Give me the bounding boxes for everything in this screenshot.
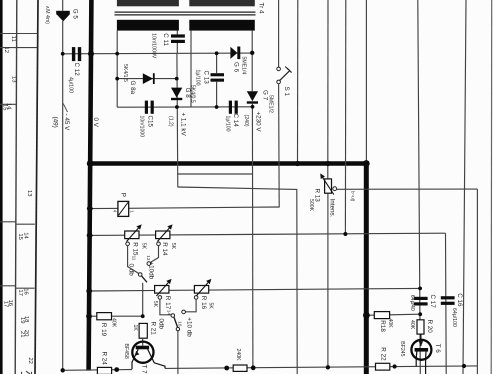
node R24 right [114,367,119,372]
svg-text:22: 22 [27,357,33,364]
svg-text:1μ/100: 1μ/100 [225,116,231,132]
wire 11 (left strip) [0,33,38,35]
T7 emitter arrow [135,351,140,356]
wire R24 (y=370) [63,369,132,372]
svg-text:240K: 240K [235,349,241,362]
corner line down x=477.5 [476,189,478,374]
cable line B [35,0,38,374]
wire 14/15 (left strip) [0,103,17,105]
svg-text:C 13: C 13 [202,71,209,85]
switch lever (0db selected) [141,276,147,283]
node C13 top [215,51,219,55]
svg-text:C 17: C 17 [429,295,436,309]
svg-text:17: 17 [2,301,8,308]
thick bus wire (right vertical) [364,161,369,374]
pot R16 body [194,286,208,294]
node +1.1kV [175,105,179,109]
relay P wire [90,207,280,209]
node +230V [251,105,255,109]
node x464 bottom [462,364,466,368]
lever common wire down to R19 node [142,283,144,316]
wire rail to x=420 [90,288,420,291]
resistor R21 [139,323,147,338]
cable line A [15,0,17,374]
svg-text:T 6: T 6 [434,344,441,353]
pot R13 body [325,179,332,193]
svg-text:R18: R18 [379,320,386,332]
node G6/winding [250,51,254,55]
svg-text:Intens.: Intens. [329,199,336,218]
wire y=107 [117,106,252,108]
svg-text:R 16: R 16 [200,296,207,310]
svg-text:15: 15 [17,233,23,240]
svg-text:0 V: 0 V [92,118,99,128]
svg-text:16: 16 [177,321,182,327]
transformer bottom winding right [189,20,255,31]
pot R17 arrow [156,283,168,297]
wire 16/17 jog [0,285,15,287]
node R23 right [251,365,256,370]
0V thick rail (left) [89,0,92,371]
R13 wiper terminal [333,187,337,191]
pot R14 arrow [157,228,169,242]
capacitor C14 [229,101,238,114]
svg-text:5K4/0,5: 5K4/0,5 [189,85,195,103]
transformer top winding right [189,0,255,6]
bottom edge stubs wire 22 [21,372,23,374]
wire R18 (y=315.3) [366,314,420,315]
switch contact 13 [147,262,151,266]
svg-text:R 21: R 21 [150,322,157,336]
pot R17 body [155,286,169,294]
node bus x297 [295,161,300,166]
svg-text:R 15: R 15 [132,242,139,256]
svg-text:R 22: R 22 [380,347,387,361]
long vertical line x=297.5 (upper) [297,0,299,164]
R13 lower line [327,193,329,367]
S1 line lower [278,84,281,208]
node rail/P [87,206,93,212]
svg-text:R 20: R 20 [426,320,433,334]
svg-text:R 24: R 24 [100,352,107,366]
svg-text:17: 17 [17,289,23,296]
svg-text:5K4/1,5: 5K4/1,5 [122,64,128,82]
lever pivot contact [176,327,179,330]
T6 gate lead [420,334,422,346]
node x345 wire235 [343,232,347,236]
svg-text:64μ/100: 64μ/100 [451,308,457,327]
R17 wiper contact [158,296,162,300]
pot R15 arrow [127,228,139,242]
svg-text:R 14: R 14 [161,242,168,256]
svg-text:b~ug̃: b~ug̃ [350,191,355,202]
node rail R18 [363,312,370,319]
capacitor C12 [72,47,81,61]
G7 bottom stub / +230V line down [251,104,254,369]
svg-text:0 db: 0 db [128,264,135,277]
resistor R18 [374,312,389,319]
transistor T7 [132,342,153,363]
T7 collector [148,349,165,368]
svg-text:G 6: G 6 [233,62,240,73]
corner line down x=445.5 [445,233,448,374]
resistor R23 [233,365,247,371]
svg-text:C 11: C 11 [162,33,169,46]
wire R19 (y=316) [90,315,143,317]
svg-text:5K: 5K [152,301,158,308]
svg-text:T 7: T 7 [141,365,148,374]
diode G6 [230,47,240,60]
svg-text:P: P [120,193,127,197]
vertical line x=366.4 upper thin [365,0,367,162]
S1 lever [280,71,290,81]
R16 wiper wire down [186,299,197,312]
switch contact 11 [138,273,142,277]
svg-text:1μ/100: 1μ/100 [195,70,201,86]
svg-text:12: 12 [3,47,9,54]
+1.1kV vertical x=177 [176,53,179,187]
diode G8a [143,73,155,84]
svg-text:19: 19 [19,317,25,324]
svg-text:14: 14 [167,310,172,316]
svg-text:BF245: BF245 [399,341,405,356]
svg-text:10n/1000V: 10n/1000V [151,33,157,59]
node x327 bottom [326,365,330,369]
svg-text:G 7: G 7 [262,90,269,101]
svg-text:Tr 4: Tr 4 [258,3,265,14]
lever common wire down [177,331,179,374]
T7 base bar [136,346,149,350]
wire 12 (left strip) [0,47,37,49]
transformer core lines [115,11,256,13]
S1 contacts [277,67,281,71]
svg-text:5ME1/4: 5ME1/4 [241,57,247,75]
svg-text:0db: 0db [158,319,165,330]
diode G8 [171,88,182,101]
S1 line upper [278,0,280,67]
R14 wiper contact [157,242,161,246]
C11 bottom stub [176,43,178,53]
svg-text:BF458: BF458 [123,344,129,359]
node bus x327 [325,161,330,166]
switch lever 2 [174,317,178,328]
svg-text:- 45 V: - 45 V [63,114,70,132]
wire A (bus branch, turns down at x=297) [178,187,297,374]
svg-text:(1,2): (1,2) [168,116,174,127]
node rail/R17 [86,288,92,294]
capacitor C13 [211,73,225,82]
node x420 wire289 [418,287,422,291]
diode G5 [56,11,70,22]
node rail/bus [87,160,94,167]
node rail/R19 [86,313,92,319]
svg-text:C 12: C 12 [73,63,80,77]
R14 wiper wire down [150,246,158,263]
transformer top winding left [117,0,179,6]
wire rail to C16 corner [90,233,446,235]
T7 emitter [132,349,138,369]
svg-text:C 14: C 14 [232,114,239,128]
right edge line [490,0,493,374]
pot R15 body [125,231,139,239]
pot R16 arrow [196,283,208,297]
node x117 G8a [115,77,119,81]
svg-text:1K: 1K [132,325,138,332]
switch contact 16 [182,310,186,314]
svg-text:1: 1 [129,210,134,213]
pot R14 body [156,231,170,239]
wire 14/15 jog lower [0,221,16,223]
svg-text:4: 4 [113,210,118,213]
node rail/top wire [88,51,94,57]
G8a branch vertical x=117 [117,78,176,80]
resistor R20 [417,320,424,334]
svg-text:64μ/40: 64μ/40 [409,295,415,311]
svg-text:13: 13 [146,255,151,261]
relay P box [118,201,129,216]
svg-text:+10db: +10db [147,262,154,280]
wire G5 top stub [62,0,64,11]
svg-text:C15: C15 [146,116,153,128]
long vertical line x=464.5 [463,0,466,374]
node G8a/G8 [175,77,179,81]
diode G7 [247,91,258,104]
R17 wiper wire down [160,299,171,315]
resistor R22 [376,363,390,370]
svg-text:5K: 5K [207,303,213,310]
node R22 right [393,364,397,368]
R13 wiper wire to right [337,188,478,190]
node -45V bottom [61,368,65,372]
svg-text:40K: 40K [409,320,415,330]
svg-text:+230 V: +230 V [255,112,262,133]
svg-text:5ME1/2: 5ME1/2 [268,95,274,113]
R21 base wire [142,338,144,346]
capacitor C16 [441,296,455,305]
node x420 R18 [418,312,422,316]
svg-text:(49): (49) [52,117,59,128]
T6 drain lead [425,352,427,374]
svg-text:R 19: R 19 [100,323,107,337]
node bus corner [363,160,370,167]
svg-text:11: 11 [10,36,16,42]
capacitor C17 [414,297,428,306]
node R19/R21 [141,314,145,318]
svg-text:S 1: S 1 [283,87,290,97]
svg-text:5K: 5K [170,243,176,250]
thick bus wire (horizontal) [88,161,366,166]
R15 wiper contact [126,242,130,246]
switch contact 14 [171,314,175,318]
winding stub wires [116,31,118,108]
svg-text:11: 11 [131,256,136,261]
svg-text:15: 15 [1,104,7,111]
wire y=368 [165,366,477,369]
T6 gate arrow [419,341,423,346]
T6 source lead [415,352,418,367]
-45V line [62,21,64,370]
svg-text:5K: 5K [141,243,147,250]
svg-text:+ 1,1 kV: + 1,1 kV [180,113,187,137]
svg-text:R 17: R 17 [164,296,171,310]
R16 wiper contact [194,296,198,300]
T6 bar [415,348,429,352]
capacitor C15 [145,101,154,114]
pot R13 arrow [322,177,334,195]
-45V leader [63,104,67,113]
node rail/R15 [87,233,93,239]
C13 stubs [216,53,218,73]
left border bar [0,0,3,374]
svg-text:4μ/100: 4μ/100 [68,77,74,93]
svg-text:13: 13 [26,190,32,197]
wire bus tap to +230V line (y=174) [178,173,253,175]
svg-text:13: 13 [10,76,16,83]
svg-text:40K: 40K [387,319,393,329]
long vertical line x=419.8 [418,0,421,374]
node R23 left [224,366,229,371]
long vertical line x=345.5 [344,0,346,234]
resistor R19 [97,313,112,320]
svg-text:(240): (240) [243,115,249,127]
svg-text:G 8a: G 8a [129,81,136,95]
R15 wiper wire down [128,246,139,274]
svg-text:G 5: G 5 [72,9,79,20]
relay P diagonal [119,202,128,215]
node x117 top [115,52,119,56]
svg-text:∧M 4m): ∧M 4m) [44,6,50,25]
long vertical line x=327.8 (to R13) [327,0,329,179]
svg-text:500K: 500K [308,199,314,212]
svg-text:C 16: C 16 [456,293,463,307]
svg-text:10n/1000: 10n/1000 [139,116,145,138]
transformer bottom winding left [117,20,179,31]
svg-text:21: 21 [19,331,25,338]
svg-text:40K: 40K [111,318,117,328]
capacitor C11 [171,34,185,43]
node C12 left [61,52,65,56]
node C13 bottom [215,105,219,109]
resistor R24 [97,367,111,374]
svg-text:+10 db: +10 db [185,317,192,337]
transistor T6 [411,340,431,360]
wire +45/top rail y=53.5 [63,52,253,55]
